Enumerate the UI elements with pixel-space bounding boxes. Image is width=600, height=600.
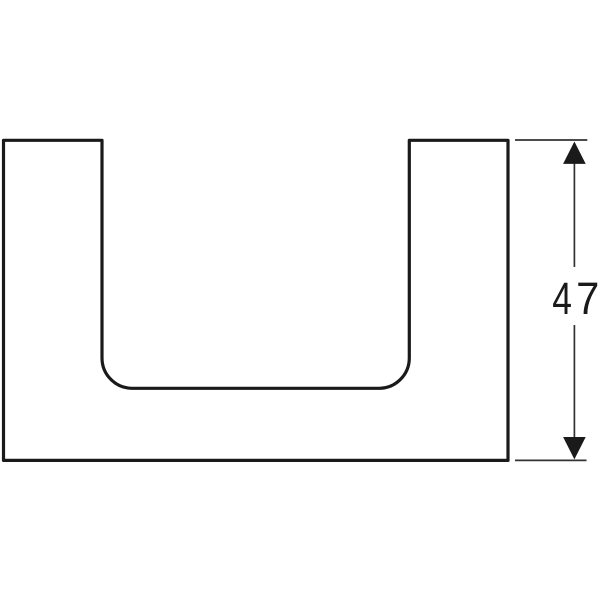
dimension line upper segment	[573, 162, 575, 267]
extension line top	[515, 139, 587, 141]
dimension line lower segment	[573, 325, 575, 439]
extension line bottom	[515, 459, 587, 461]
svg-text:7: 7	[576, 275, 599, 325]
U-shaped part outline	[4, 140, 509, 460]
svg-text:4: 4	[552, 273, 572, 324]
arrowhead down	[563, 437, 586, 459]
arrowhead up	[563, 142, 586, 164]
